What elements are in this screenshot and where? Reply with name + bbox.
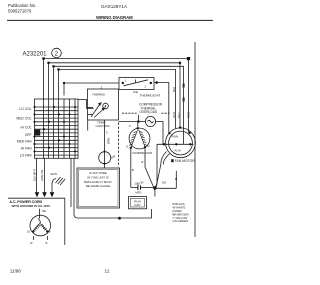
- wire switch bottom right 2 to rail: [74, 159, 152, 219]
- wire fan to capacitor junction vertical: [155, 144, 157, 188]
- svg-text:ICE: ICE: [133, 90, 138, 94]
- wire R to junction diagonal: [145, 147, 154, 187]
- svg-text:WHT: WHT: [172, 111, 176, 118]
- capacitor value top: [134, 181, 140, 185]
- thermostat internal wire 2: [88, 114, 93, 116]
- switch column 5: [63, 99, 65, 158]
- plug terminal right: [46, 230, 48, 232]
- compressor winding left: [129, 130, 137, 147]
- label GRN: [50, 172, 57, 176]
- ice thermostat right terminal: [150, 82, 152, 84]
- wire label vertical right 2: [172, 111, 176, 118]
- junction dot W4 left corner: [57, 68, 59, 70]
- label W sensor: [111, 155, 114, 159]
- wire tag marks on drop wires: [183, 84, 185, 102]
- svg-text:BLK: BLK: [172, 87, 176, 92]
- svg-text:GN-GREEN: GN-GREEN: [173, 219, 189, 223]
- svg-text:5995271679: 5995271679: [8, 9, 32, 14]
- compressor label: [132, 151, 152, 155]
- wire color legend: [173, 202, 189, 223]
- svg-text:A232201: A232201: [23, 51, 48, 57]
- label B on S wire: [132, 168, 134, 172]
- ice thermostat box: [119, 78, 154, 90]
- svg-text:NE: NE: [42, 209, 46, 213]
- svg-text:RED: RED: [186, 112, 190, 118]
- footer page number: [105, 269, 110, 274]
- switch off-block fill: [34, 130, 40, 136]
- diagram number A232201: [23, 51, 48, 57]
- wire thermostat to frost sensor: [104, 120, 106, 152]
- wire power green: [52, 179, 56, 193]
- ice thermostat contact arm: [124, 80, 149, 86]
- plug prong right hatched: [40, 224, 47, 232]
- arrow black wire: [35, 192, 40, 197]
- label 1 sensor wire: [106, 131, 108, 135]
- note box: [77, 168, 120, 208]
- svg-text:WIRING DIAGRAM: WIRING DIAGRAM: [96, 15, 133, 20]
- wire W1 (outer bundle wire, switch to right drop): [44, 59, 189, 159]
- fan motor RUN label: [172, 134, 179, 138]
- wire node to overload: [138, 121, 145, 123]
- svg-text:10M: 10M: [134, 181, 140, 185]
- switch column 6: [69, 99, 71, 158]
- svg-text:COMPRESSOR: COMPRESSOR: [132, 151, 152, 155]
- svg-text:IN THIS UNIT IS: IN THIS UNIT IS: [87, 175, 108, 179]
- fan motor bottom terminal mark: [171, 159, 173, 162]
- svg-text:HI COL: HI COL: [21, 126, 32, 130]
- label NO: [162, 180, 167, 184]
- compressor top terminal: [137, 127, 139, 129]
- svg-text:GRN-YEL: GRN-YEL: [40, 169, 44, 181]
- junction dot W2 left corner: [47, 62, 49, 64]
- capacitor plates: [137, 185, 139, 191]
- svg-text:10: 10: [27, 229, 30, 233]
- svg-text:4: 4: [113, 155, 115, 159]
- thermostat internal label: [92, 93, 106, 97]
- svg-text:CONTROL: CONTROL: [96, 124, 111, 128]
- wire W3: [54, 66, 184, 158]
- frost sensor circle: [99, 152, 111, 164]
- switch matrix rows: [35, 106, 79, 108]
- footer date: [10, 269, 21, 274]
- plug lower ticks: [32, 236, 34, 240]
- svg-text:S: S: [126, 145, 128, 149]
- svg-text:GRN: GRN: [50, 172, 57, 176]
- cabinet dashed line: [118, 123, 120, 168]
- run capacitor box: [129, 197, 147, 209]
- wire W4: [59, 69, 176, 158]
- fan motor inner circle: [169, 131, 193, 155]
- svg-text:B: B: [46, 241, 48, 245]
- capacitor junction dot: [153, 186, 156, 189]
- run capacitor label: [134, 200, 141, 208]
- svg-text:REPLACED IT MUST: REPLACED IT MUST: [84, 180, 112, 184]
- svg-text:THERMOSTAT: THERMOSTAT: [140, 93, 161, 97]
- wire up right of junction: [175, 171, 177, 189]
- svg-text:Publication No.: Publication No.: [8, 3, 36, 8]
- header title WIRING DIAGRAM: [96, 15, 133, 20]
- plug circle: [30, 215, 51, 236]
- compressor winding right: [139, 130, 147, 146]
- run capacitor inner box: [131, 198, 145, 207]
- svg-text:FAN MOTOR: FAN MOTOR: [175, 159, 196, 163]
- note box inner border: [79, 170, 118, 207]
- svg-text:IF ANY WIRE: IF ANY WIRE: [89, 171, 107, 175]
- svg-text:GAX128Y1A: GAX128Y1A: [101, 4, 128, 9]
- svg-text:BLK-WHT: BLK-WHT: [32, 169, 36, 181]
- sensor terminal dot top: [104, 151, 106, 153]
- svg-text:BRN: BRN: [107, 138, 111, 144]
- circled 2 callout: [52, 48, 62, 58]
- svg-text:B: B: [132, 168, 134, 172]
- label GRN-YEL vertical: [40, 169, 44, 181]
- wire compressor top: [137, 122, 139, 129]
- ice thermostat label: [133, 90, 160, 97]
- svg-text:11/98: 11/98: [10, 269, 21, 274]
- arrow green wire: [50, 192, 55, 197]
- svg-text:MED COL: MED COL: [16, 117, 31, 121]
- plug stem label: [42, 209, 46, 213]
- wire power white: [44, 158, 46, 192]
- wire switch to thermostat: [78, 100, 94, 109]
- label R wire: [141, 160, 144, 164]
- wire label vertical right 3: [177, 113, 181, 118]
- terminal 1 label: [101, 86, 103, 90]
- svg-text:THERMO: THERMO: [92, 93, 106, 97]
- label BLK-WHT vertical: [32, 169, 36, 181]
- wire to ice thermostat: [64, 83, 119, 96]
- sensor diameter wire: [104, 152, 106, 168]
- svg-text:B: B: [49, 229, 51, 233]
- label W funnel: [141, 181, 144, 185]
- wire switch bottom right 1: [70, 159, 72, 208]
- wire junction down to cap box: [154, 188, 156, 197]
- plug terminal left: [32, 230, 34, 232]
- overload protector circle: [145, 116, 155, 126]
- svg-text:12: 12: [105, 269, 110, 274]
- svg-text:1: 1: [106, 131, 108, 135]
- svg-text:WITH GROUND PLUG 115V: WITH GROUND PLUG 115V: [12, 204, 51, 208]
- thermostat lower-left stub wire: [87, 120, 89, 131]
- svg-text:LO COL: LO COL: [19, 107, 31, 111]
- fan motor label: [175, 159, 196, 163]
- thermostat contact arm 1: [91, 103, 101, 117]
- junction dot W3 left corner: [52, 65, 54, 67]
- leader dash right: [162, 112, 170, 114]
- label S: [126, 145, 128, 149]
- label C: [129, 124, 132, 128]
- svg-text:OVERLOAD: OVERLOAD: [140, 110, 158, 114]
- label 4: [113, 155, 115, 159]
- junction dot ice out: [155, 81, 158, 84]
- wire label vertical right 4: [186, 112, 190, 118]
- rail junction dot: [118, 217, 121, 220]
- ice thermostat left terminal: [122, 82, 124, 84]
- wire S down: [130, 148, 132, 188]
- overload wave symbol: [148, 120, 154, 122]
- junction dot W1 right corner: [187, 57, 190, 60]
- fan motor AUX label: [174, 149, 180, 153]
- long right supply wire: [194, 42, 196, 237]
- power cord band rule: [8, 198, 65, 245]
- junction dot W2 right corner: [179, 62, 181, 64]
- svg-text:RUN: RUN: [172, 134, 179, 138]
- wire overload to fan side: [156, 122, 163, 145]
- compressor node dot: [137, 120, 140, 123]
- fan motor chord wire: [157, 143, 194, 145]
- leader dash left: [122, 112, 137, 114]
- wire fan curve to junction: [156, 165, 161, 188]
- switch row labels: [16, 107, 32, 157]
- compressor R terminal: [144, 146, 146, 148]
- junction dot W1 left corner: [42, 57, 44, 59]
- plug side label left: [27, 229, 30, 233]
- sensor terminal dot bottom: [104, 163, 106, 165]
- wire ice thermostat to fan drop: [154, 83, 169, 133]
- wire junction right: [155, 187, 176, 189]
- wire thermostat to compressor node: [119, 121, 139, 123]
- power cord text: [9, 200, 50, 208]
- svg-text:BLU: BLU: [177, 113, 181, 118]
- wire W2: [49, 63, 181, 159]
- svg-text:LO FAN: LO FAN: [20, 154, 32, 158]
- note box text: [84, 171, 112, 188]
- compressor motor circle: [129, 128, 150, 149]
- svg-text:CAP.: CAP.: [134, 203, 141, 207]
- fan motor exit curve: [161, 152, 167, 165]
- stub up from node: [137, 115, 139, 122]
- svg-text:OFF: OFF: [25, 133, 32, 137]
- ice thermostat tick: [135, 80, 137, 84]
- plug top stem: [39, 209, 41, 218]
- thermostat label: [96, 121, 111, 128]
- svg-text:MFD: MFD: [135, 190, 141, 194]
- fan motor outer circle: [166, 128, 196, 158]
- plug stem squiggle: [39, 218, 41, 224]
- plug prong left hatched: [33, 224, 40, 232]
- switch contact dots: [33, 106, 76, 153]
- header publication number: [8, 3, 36, 14]
- thermostat contact arm 2: [94, 108, 105, 118]
- compressor S terminal: [130, 147, 132, 149]
- arrow white wire: [42, 192, 47, 197]
- plug side label right: [49, 229, 51, 233]
- svg-text:BE SAME GAUGE: BE SAME GAUGE: [86, 184, 110, 188]
- wire BLK label vertical right 1: [172, 87, 176, 92]
- header rule: [7, 19, 213, 21]
- svg-text:AUX: AUX: [174, 149, 180, 153]
- thermostat box: [88, 89, 119, 120]
- wire junction left with capacitor: [141, 186, 153, 188]
- plug bottom marks: [30, 241, 48, 245]
- svg-text:NO: NO: [162, 180, 167, 184]
- header model number: [101, 4, 128, 9]
- label R: [147, 144, 150, 148]
- svg-text:HI FAN: HI FAN: [21, 147, 32, 151]
- thermostat internal wire 1: [88, 107, 94, 109]
- fan motor chord dots: [163, 126, 192, 145]
- svg-text:MED FAN: MED FAN: [17, 139, 32, 143]
- chassis ground hatch: [56, 177, 66, 185]
- switch column 7: [74, 99, 76, 158]
- junction dot ice wire corner: [63, 82, 65, 84]
- thermostat bulb: [103, 103, 109, 109]
- label S vertical: [107, 138, 111, 144]
- selector switch box: [35, 99, 79, 158]
- svg-text:W: W: [141, 181, 144, 185]
- overload note text block: [139, 103, 163, 115]
- wire power black: [36, 158, 38, 192]
- label M: [175, 177, 178, 181]
- capacitor value bottom: [135, 190, 141, 194]
